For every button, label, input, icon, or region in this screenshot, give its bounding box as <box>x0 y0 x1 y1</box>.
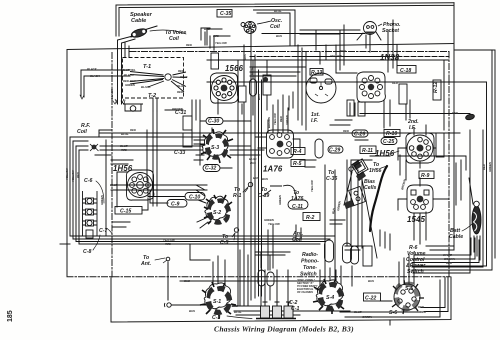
svg-text:YELLOW: YELLOW <box>330 54 342 58</box>
svg-text:C-35: C-35 <box>220 11 231 17</box>
svg-text:C-36: C-36 <box>326 176 337 182</box>
svg-text:BUS: BUS <box>262 177 268 181</box>
svg-text:Cable: Cable <box>449 234 463 240</box>
svg-text:YELLOW: YELLOW <box>65 168 69 180</box>
svg-text:Cable: Cable <box>131 18 146 24</box>
svg-text:RED: RED <box>121 148 127 152</box>
svg-text:S-2: S-2 <box>213 210 221 216</box>
svg-text:RED: RED <box>482 164 486 170</box>
svg-text:RED: RED <box>420 310 426 314</box>
svg-text:S-5: S-5 <box>405 286 413 292</box>
svg-text:C-11: C-11 <box>292 204 303 210</box>
svg-text:C-25: C-25 <box>383 139 394 145</box>
svg-text:R-12: R-12 <box>433 82 439 93</box>
svg-text:BROWN: BROWN <box>172 107 184 111</box>
svg-text:GREEN: GREEN <box>100 194 104 205</box>
svg-text:C-15: C-15 <box>120 209 131 215</box>
svg-text:1A76: 1A76 <box>263 165 283 174</box>
svg-text:YELLOW: YELLOW <box>268 222 280 226</box>
svg-text:R-11: R-11 <box>362 148 373 154</box>
svg-text:BUS: BUS <box>184 279 190 283</box>
svg-text:BUS: BUS <box>243 54 247 60</box>
svg-text:Chassis Wiring Diagram (Models: Chassis Wiring Diagram (Models B2, B3) <box>214 325 354 334</box>
svg-text:BLUE: BLUE <box>180 75 188 79</box>
svg-text:Switch: Switch <box>300 272 317 278</box>
svg-text:RED: RED <box>340 49 346 53</box>
svg-text:RED: RED <box>279 116 283 122</box>
svg-text:Phono-: Phono- <box>301 259 319 265</box>
svg-text:BLACK: BLACK <box>90 74 101 78</box>
svg-text:C-30: C-30 <box>208 119 219 125</box>
svg-text:1566: 1566 <box>225 64 244 73</box>
svg-text:BLUE: BLUE <box>121 132 129 136</box>
svg-text:RED: RED <box>392 81 398 85</box>
svg-text:YELLOW: YELLOW <box>215 41 227 45</box>
svg-text:Coil: Coil <box>169 36 179 42</box>
svg-text:S-3: S-3 <box>211 145 219 151</box>
svg-text:1H56: 1H56 <box>375 149 395 158</box>
svg-text:C-26: C-26 <box>354 132 365 138</box>
svg-text:C-33: C-33 <box>174 150 185 156</box>
svg-text:S-6: S-6 <box>389 310 397 316</box>
svg-text:RED: RED <box>178 69 184 73</box>
svg-text:BUS: BUS <box>189 309 195 313</box>
svg-text:C-10: C-10 <box>189 195 200 201</box>
svg-text:RED: RED <box>165 242 171 246</box>
svg-text:R-9: R-9 <box>421 173 429 179</box>
svg-text:GREEN: GREEN <box>285 114 289 125</box>
svg-text:R-2: R-2 <box>306 215 314 221</box>
svg-text:RED: RED <box>213 34 219 38</box>
svg-text:C-1: C-1 <box>291 306 299 312</box>
svg-text:I.F.: I.F. <box>409 125 416 131</box>
svg-text:BLUE: BLUE <box>250 67 254 75</box>
svg-text:BUS: BUS <box>276 34 282 38</box>
svg-text:C-9: C-9 <box>171 202 179 208</box>
svg-text:BLACK: BLACK <box>141 85 152 89</box>
svg-text:S-4: S-4 <box>326 295 334 301</box>
svg-text:C-29: C-29 <box>329 148 340 154</box>
svg-text:GREEN: GREEN <box>278 194 282 205</box>
svg-text:T-1: T-1 <box>143 64 151 70</box>
svg-text:Socket: Socket <box>382 28 399 34</box>
svg-text:C-8: C-8 <box>83 249 91 255</box>
svg-text:BUS: BUS <box>257 94 261 100</box>
svg-text:GREEN: GREEN <box>488 161 492 172</box>
svg-text:BROWN: BROWN <box>267 116 271 128</box>
svg-text:BLACK: BLACK <box>110 88 114 99</box>
svg-text:Tone-: Tone- <box>303 265 317 271</box>
svg-text:Radio-: Radio- <box>302 252 318 258</box>
svg-text:YELLOW: YELLOW <box>310 180 314 192</box>
svg-text:1A76: 1A76 <box>291 196 304 202</box>
svg-text:GREEN: GREEN <box>125 83 136 87</box>
svg-text:RED: RED <box>452 111 458 115</box>
svg-text:Coil: Coil <box>292 237 302 243</box>
svg-text:C-22: C-22 <box>365 296 376 302</box>
svg-text:RED: RED <box>130 128 136 132</box>
svg-text:R-1: R-1 <box>233 193 241 199</box>
svg-text:BLUE: BLUE <box>234 310 242 314</box>
svg-text:BLUE: BLUE <box>354 310 362 314</box>
svg-text:1H56: 1H56 <box>113 164 133 173</box>
svg-text:Coil: Coil <box>77 129 87 135</box>
svg-text:R-13: R-13 <box>311 70 322 76</box>
svg-text:RED: RED <box>418 305 424 309</box>
svg-text:BLUE: BLUE <box>177 84 185 88</box>
svg-text:Switch: Switch <box>407 269 424 275</box>
svg-text:RED: RED <box>343 129 349 133</box>
svg-text:Coil: Coil <box>270 24 280 30</box>
svg-text:C-18: C-18 <box>400 68 411 74</box>
svg-text:BUS: BUS <box>368 279 374 283</box>
svg-text:GREEN: GREEN <box>362 315 373 319</box>
svg-text:R-5: R-5 <box>293 161 301 167</box>
svg-text:185: 185 <box>7 310 14 322</box>
svg-text:OF CHASSIS: OF CHASSIS <box>297 290 313 294</box>
svg-text:Ant.: Ant. <box>140 261 151 267</box>
svg-text:BUS: BUS <box>253 176 259 180</box>
svg-text:C-7: C-7 <box>99 228 108 234</box>
svg-text:S-1: S-1 <box>213 299 221 305</box>
svg-text:C-5: C-5 <box>220 240 228 246</box>
svg-text:BLUE: BLUE <box>110 183 118 187</box>
svg-text:YELLOW: YELLOW <box>273 113 277 125</box>
svg-text:BLACK: BLACK <box>87 67 98 71</box>
svg-text:I.F.: I.F. <box>311 118 318 124</box>
svg-text:RED: RED <box>446 261 452 265</box>
svg-text:BLACK: BLACK <box>124 73 135 77</box>
svg-text:C-39: C-39 <box>258 193 269 199</box>
svg-text:BUS: BUS <box>204 27 210 31</box>
svg-text:Cells: Cells <box>364 185 377 191</box>
svg-text:YELLOW: YELLOW <box>71 170 75 182</box>
svg-text:BLUE-YEL: BLUE-YEL <box>122 68 136 72</box>
svg-text:R-4: R-4 <box>293 149 301 155</box>
svg-text:C-6: C-6 <box>84 178 92 184</box>
svg-text:BLUE: BLUE <box>274 9 282 13</box>
svg-text:R-10: R-10 <box>386 131 397 137</box>
svg-text:1N38: 1N38 <box>380 53 400 62</box>
svg-text:T-2: T-2 <box>148 93 157 99</box>
svg-text:BUS: BUS <box>250 161 256 165</box>
svg-text:1545: 1545 <box>407 215 426 224</box>
svg-text:RED: RED <box>186 43 192 47</box>
svg-text:1H56: 1H56 <box>369 168 382 174</box>
svg-text:RED: RED <box>76 172 80 178</box>
svg-text:C-32: C-32 <box>205 166 216 172</box>
svg-text:BUS: BUS <box>232 304 238 308</box>
svg-text:RED: RED <box>177 90 183 94</box>
svg-text:C-3: C-3 <box>212 315 220 321</box>
